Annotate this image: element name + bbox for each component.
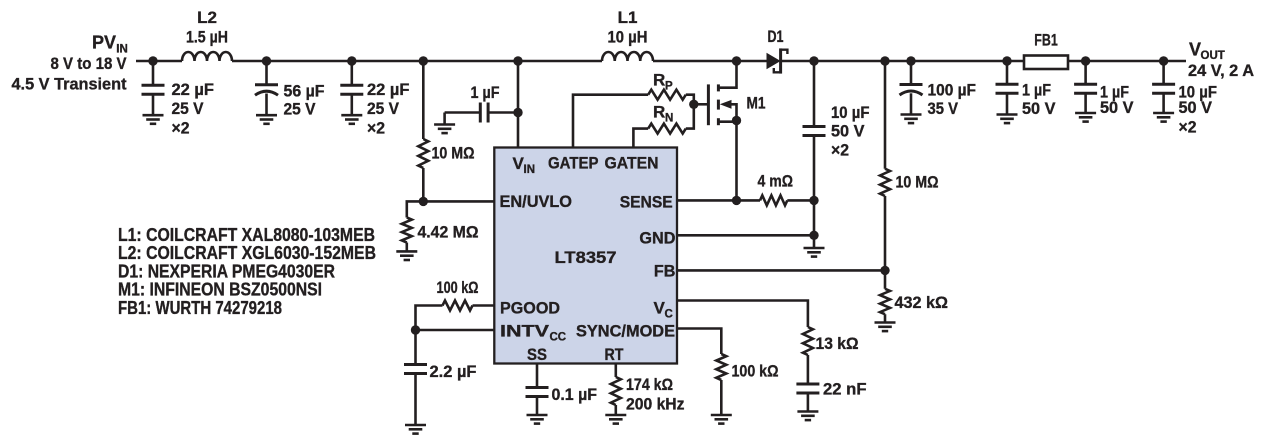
svg-text:10 MΩ: 10 MΩ (896, 173, 939, 192)
svg-text:10 MΩ: 10 MΩ (432, 144, 475, 163)
node output junction D1 (809, 56, 818, 65)
svg-text:PGOOD: PGOOD (500, 299, 560, 318)
wire M1 source down (735, 121, 738, 201)
ground 100k sync (711, 414, 732, 417)
svg-text:GATEN: GATEN (605, 154, 659, 173)
resistor 10M feedback (884, 61, 887, 169)
svg-text:GATEP: GATEP (548, 154, 599, 173)
capacitor 1uF bypass (488, 111, 518, 114)
svg-text:50 V: 50 V (831, 122, 865, 141)
svg-text:INTV: INTV (500, 322, 550, 341)
node VIN bypass junction (513, 108, 522, 117)
svg-text:25 V: 25 V (367, 99, 400, 118)
svg-text:L1: COILCRAFT XAL8080-103MEB: L1: COILCRAFT XAL8080-103MEB (118, 225, 375, 245)
ground input cap 2 (341, 114, 362, 117)
node rail junction drain (732, 56, 741, 65)
resistor 4mOhm (760, 195, 787, 205)
ground 2.2uF (405, 424, 426, 427)
ground 4.42M (396, 250, 417, 253)
capacitor 2.2uF (414, 330, 417, 365)
svg-text:FB: FB (654, 262, 676, 281)
wire PGOOD pin (473, 304, 495, 307)
resistor 100k pgood (443, 301, 473, 311)
diode D1 (767, 53, 781, 70)
capacitor 0.1uF (526, 386, 549, 389)
svg-text:D1: NEXPERIA PMEG4030ER: D1: NEXPERIA PMEG4030ER (118, 261, 335, 281)
ground 100uF (901, 113, 922, 116)
wire INTVCC pin (416, 329, 495, 332)
svg-text:FB1: WURTH 74279218: FB1: WURTH 74279218 (118, 298, 282, 318)
svg-text:×2: ×2 (831, 141, 849, 160)
svg-text:L2: L2 (197, 8, 217, 27)
ground 0.1uF (527, 414, 548, 417)
ground 10uF out (1153, 112, 1174, 115)
ground 1uF out b (1075, 112, 1096, 115)
ground 432k (875, 321, 896, 324)
node input junction 2 (262, 56, 271, 65)
wire gate lead (694, 103, 709, 106)
resistor 432k (884, 270, 887, 288)
svg-text:SS: SS (527, 345, 547, 364)
svg-text:GND: GND (639, 229, 675, 248)
capacitor 100uF (910, 61, 913, 85)
node output junction 10uF (1159, 56, 1168, 65)
wire EN left (407, 201, 424, 217)
svg-text:432 kΩ: 432 kΩ (895, 293, 949, 312)
node input junction 3 (347, 56, 356, 65)
inductor L1 (602, 52, 653, 61)
svg-text:FB1: FB1 (1034, 31, 1058, 50)
wire RT pin (614, 364, 617, 378)
wire GATEP (573, 95, 648, 148)
node GND junction (809, 231, 818, 240)
ground 56uF (256, 114, 277, 117)
node output junction 1uF b (1081, 56, 1090, 65)
svg-text:L2: COILCRAFT XGL6030-152MEB: L2: COILCRAFT XGL6030-152MEB (118, 243, 376, 263)
node output junction 1uF a (1002, 56, 1011, 65)
resistor 10M upper (422, 61, 425, 139)
capacitor 1uF out a (1006, 61, 1009, 84)
svg-text:1 µF: 1 µF (471, 83, 500, 102)
svg-text:P: P (665, 81, 673, 93)
svg-text:PV: PV (92, 33, 116, 53)
svg-text:1 µF: 1 µF (1022, 81, 1051, 100)
node M1 sense junction (732, 196, 741, 205)
inductor L2 (182, 52, 232, 61)
svg-text:4 mΩ: 4 mΩ (758, 172, 794, 191)
wire GND pin (677, 234, 814, 237)
svg-text:EN/UVLO: EN/UVLO (500, 192, 573, 211)
transistor M1 body arrow (720, 100, 732, 109)
svg-text:200 kHz: 200 kHz (626, 395, 685, 414)
svg-text:2.2 µF: 2.2 µF (430, 362, 477, 381)
capacitor 22uF input (152, 61, 155, 85)
svg-text:22 µF: 22 µF (367, 80, 410, 99)
svg-text:13 kΩ: 13 kΩ (816, 334, 859, 353)
capacitor 22uF input 2 (350, 61, 353, 85)
wire GND stub (813, 235, 816, 248)
svg-text:C: C (665, 309, 673, 321)
svg-text:100 kΩ: 100 kΩ (732, 362, 779, 381)
capacitor 56uF (265, 61, 268, 85)
node rail junction 10M (419, 56, 428, 65)
wire GATEN (633, 129, 648, 148)
wire SENSE down (813, 200, 816, 235)
capacitor 22nF (796, 383, 819, 386)
svg-text:1.5 µH: 1.5 µH (186, 28, 228, 47)
svg-text:V: V (1189, 40, 1201, 60)
transistor M1 gate bar (707, 84, 710, 125)
svg-text:50 V: 50 V (1022, 99, 1056, 118)
svg-text:CC: CC (550, 332, 567, 344)
wire input rail left (136, 60, 182, 63)
svg-text:D1: D1 (768, 27, 784, 46)
node gate junction (689, 100, 698, 109)
resistor RN (648, 124, 686, 134)
svg-text:4.5 V Transient: 4.5 V Transient (12, 75, 127, 94)
transistor M1 source lead (718, 120, 736, 123)
wire rail mid (232, 60, 602, 63)
svg-text:25 V: 25 V (284, 100, 317, 119)
ground 1uF bypass (434, 123, 455, 126)
resistor 4.42M (402, 218, 412, 243)
svg-text:100 kΩ: 100 kΩ (437, 278, 479, 297)
svg-text:RT: RT (605, 345, 625, 364)
svg-text:L1: L1 (618, 8, 638, 27)
wire FB pin (677, 269, 885, 272)
svg-text:0.1 µF: 0.1 µF (552, 385, 598, 404)
wire rail output (781, 60, 1186, 63)
svg-text:35 V: 35 V (928, 99, 959, 118)
node rail junction fbdiv (880, 56, 889, 65)
transistor M1 channel (717, 84, 720, 91)
wire SS pin (536, 364, 539, 388)
svg-text:50 V: 50 V (1179, 98, 1213, 117)
svg-text:M1: INFINEON BSZ0500NSI: M1: INFINEON BSZ0500NSI (118, 280, 322, 300)
svg-text:50 V: 50 V (1100, 98, 1134, 117)
op-amp U1 LT8357 body (494, 148, 677, 364)
wire rail to D1 (653, 60, 767, 63)
svg-text:LT8357: LT8357 (555, 248, 617, 267)
svg-text:100 µF: 100 µF (928, 81, 977, 100)
capacitor 10uF x2 switch node (813, 61, 816, 127)
ground 1uF out a (997, 113, 1018, 116)
svg-text:SENSE: SENSE (620, 193, 673, 212)
transistor M1 drain lead (718, 61, 736, 88)
svg-text:8 V to 18 V: 8 V to 18 V (51, 54, 128, 73)
ground IC GND (804, 247, 825, 250)
svg-text:M1: M1 (747, 94, 766, 113)
ground input cap 1 (143, 114, 164, 117)
wire VC pin (677, 301, 808, 328)
wire SYNC pin (677, 329, 721, 355)
node FB junction (880, 266, 889, 275)
svg-text:24 V, 2 A: 24 V, 2 A (1188, 61, 1254, 80)
node INTVCC junction (411, 325, 420, 334)
wire VIN vertical (517, 61, 520, 148)
svg-text:N: N (665, 113, 673, 125)
node rail junction VIN (513, 56, 522, 65)
ferrite bead FB1 (1024, 56, 1068, 70)
resistor 174k (611, 377, 621, 405)
svg-text:10 µH: 10 µH (608, 28, 648, 47)
svg-text:R: R (653, 103, 665, 122)
wire SENSE (677, 199, 760, 202)
svg-text:22 nF: 22 nF (823, 380, 867, 399)
svg-text:22 µF: 22 µF (172, 80, 215, 99)
svg-text:IN: IN (524, 164, 536, 176)
svg-text:×2: ×2 (1179, 118, 1197, 137)
node output junction 100uF (906, 56, 915, 65)
resistor 13k (803, 327, 813, 355)
svg-text:×2: ×2 (172, 119, 190, 138)
resistor RP (648, 90, 686, 100)
svg-text:174 kΩ: 174 kΩ (626, 375, 673, 394)
svg-text:4.42 MΩ: 4.42 MΩ (418, 223, 479, 242)
node SENSE junction (809, 196, 818, 205)
node input junction 1 (148, 56, 157, 65)
svg-text:×2: ×2 (367, 119, 385, 138)
node EN junction (419, 197, 428, 206)
node M1 source junction (732, 116, 741, 125)
wire EN to IC (423, 200, 494, 203)
svg-text:10 µF: 10 µF (831, 103, 870, 122)
ground 22nF (797, 410, 818, 413)
svg-text:R: R (653, 71, 665, 90)
capacitor 10uF out (1162, 61, 1165, 84)
ground 174k (605, 414, 626, 417)
svg-text:25 V: 25 V (172, 99, 205, 118)
svg-text:SYNC/MODE: SYNC/MODE (576, 322, 675, 341)
svg-text:56 µF: 56 µF (284, 82, 325, 101)
resistor 100k sync (716, 354, 726, 380)
capacitor 1uF out b (1084, 61, 1087, 84)
